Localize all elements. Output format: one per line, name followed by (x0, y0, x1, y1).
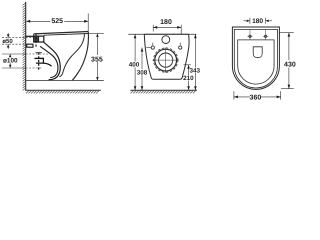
dimension 180 top view (243, 18, 272, 24)
drain dashed circle (154, 48, 178, 72)
dimension 343 (194, 34, 196, 67)
floor hatch middle view (131, 91, 196, 94)
svg-text:180: 180 (160, 19, 172, 26)
flush pipe centerline dashed (35, 33, 37, 46)
dia100 dashed extensions right of wall (26, 54, 49, 68)
siphon trap outer curve (44, 42, 60, 79)
outer front face (72, 32, 88, 81)
dimension 180 middle (153, 25, 181, 34)
dimension 430 (279, 33, 293, 89)
pan bottom line + extension (26, 80, 104, 82)
small inlet stub (27, 44, 33, 47)
wall hatch (23, 3, 26, 90)
drain pipe bars (35, 57, 44, 59)
water inlet circle (162, 36, 170, 44)
pan back outline (144, 34, 189, 79)
svg-text:210: 210 (183, 75, 194, 82)
drain pipe centerline dashed (38, 53, 40, 71)
pan top edge (144, 33, 188, 35)
fixing hole left (151, 46, 154, 49)
dia100 arrows (9, 54, 11, 56)
dia50 arrows (7, 33, 9, 38)
dimension dia100 lines (2, 54, 26, 68)
drain inner circle (159, 53, 173, 67)
top extension line (128, 33, 196, 35)
svg-text:360: 360 (250, 95, 262, 102)
svg-text:308: 308 (137, 69, 148, 76)
dimension 210 (184, 64, 191, 66)
texts middle view (160, 19, 173, 25)
inner outline (238, 40, 274, 84)
texts right view (252, 18, 263, 24)
svg-text:525: 525 (51, 18, 63, 25)
outer outline (232, 27, 279, 89)
fixing hole right (179, 46, 182, 49)
rim second line (44, 34, 89, 36)
dimension dia50 dashed lines (2, 38, 34, 45)
dimension 525 (26, 14, 88, 32)
svg-text:355: 355 (91, 56, 103, 63)
siphon trap inner curve (40, 46, 58, 77)
flush opening (253, 47, 262, 58)
drain circle crosshair (153, 59, 180, 61)
dimension 360 (234, 91, 281, 99)
inner front curve (59, 34, 84, 77)
floor hatch left view (26, 91, 99, 94)
drain outer circle (155, 49, 177, 71)
back step to wall (26, 35, 37, 37)
svg-text:343: 343 (190, 67, 201, 74)
middle outline (234, 29, 277, 88)
dimension 400 (134, 34, 136, 61)
seat hinge hole left (249, 35, 251, 37)
flush connector block (34, 36, 44, 42)
dimension 355 (88, 33, 104, 35)
svg-text:430: 430 (284, 62, 296, 69)
rim top line (34, 32, 89, 34)
svg-text:180: 180 (252, 18, 263, 25)
floor line middle view (130, 89, 197, 91)
svg-text:ø100: ø100 (3, 58, 18, 65)
seat hinge hole right (264, 35, 266, 37)
dimension 308 (141, 48, 143, 70)
wall (25, 2, 27, 90)
svg-text:ø50: ø50 (2, 38, 13, 45)
floor line left view (25, 89, 101, 91)
svg-text:400: 400 (129, 62, 140, 69)
